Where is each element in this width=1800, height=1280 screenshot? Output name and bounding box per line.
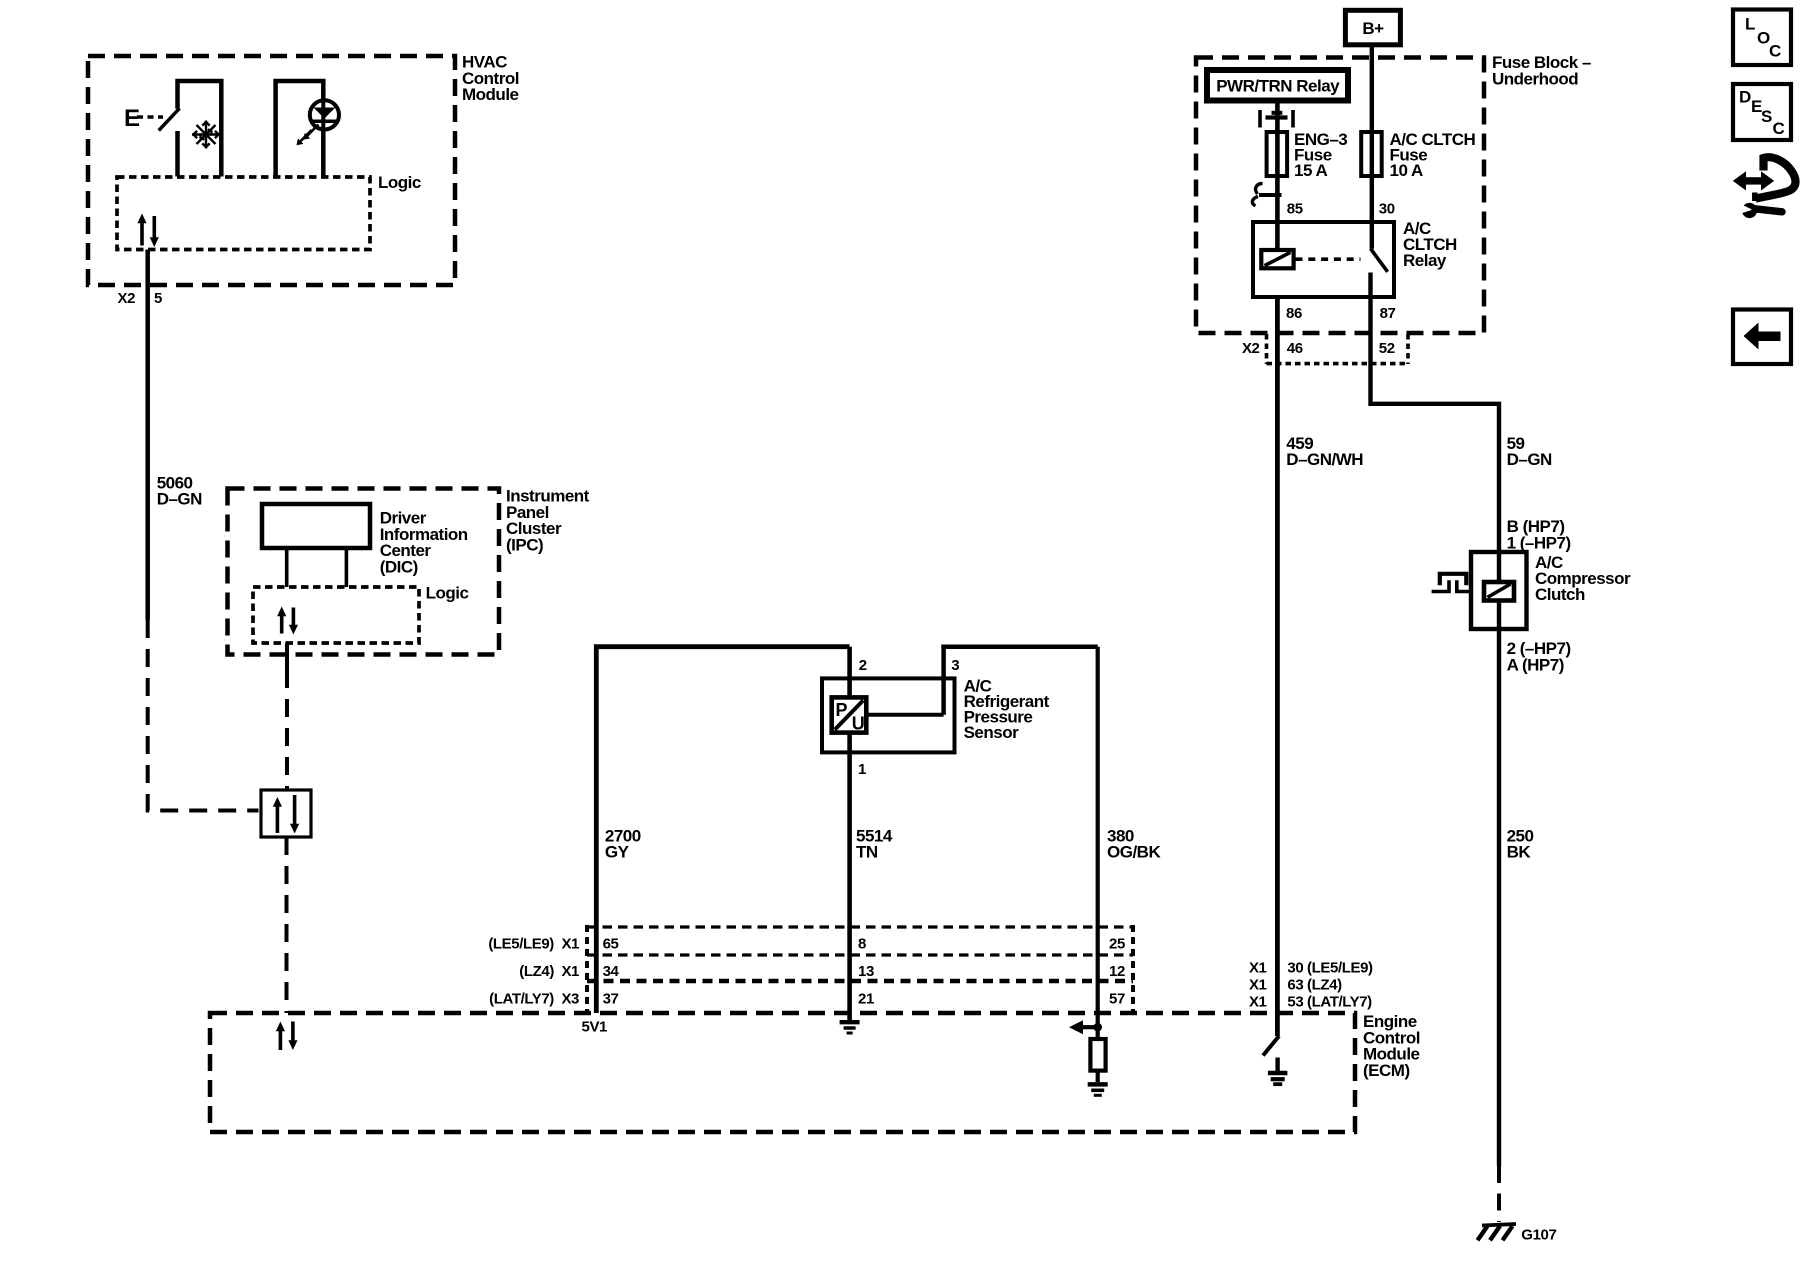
resistor R1 [1090, 1039, 1105, 1071]
fuse A/C CLTCH [1361, 132, 1382, 176]
LED D1 circle [310, 100, 339, 129]
svg-text:57: 57 [1109, 991, 1125, 1008]
wire 87 contact run [1371, 273, 1500, 553]
wire 59 D-GN label [1507, 434, 1552, 469]
wire 250 BK dashed end [1497, 1166, 1501, 1222]
splice bar [1259, 193, 1282, 197]
svg-text:X2: X2 [1242, 340, 1260, 357]
wire pin 2 upper [847, 647, 852, 698]
HVAC Logic box [117, 177, 370, 250]
B+ feed box [1345, 10, 1400, 45]
link box down arrow [293, 795, 297, 825]
LOC nav box [1733, 10, 1791, 66]
LOC letters [1745, 15, 1781, 61]
svg-text:12: 12 [1109, 963, 1125, 980]
pin B/1 labels [1507, 517, 1571, 552]
ECM driver switch [1263, 1036, 1279, 1056]
wire 459 D-GN/WH label [1286, 434, 1363, 469]
svg-text:Clutch: Clutch [1535, 585, 1585, 604]
svg-text:37: 37 [603, 991, 619, 1008]
Fuse Block label [1492, 53, 1591, 88]
svg-text:Relay: Relay [1403, 251, 1447, 270]
svg-text:(LAT/LY7) X3: (LAT/LY7) X3 [489, 991, 579, 1008]
LED light arrow 1 [306, 125, 318, 138]
back arrow [1744, 323, 1781, 350]
svg-text:C: C [1769, 42, 1781, 61]
mechanical linkage leads [1432, 580, 1471, 591]
svg-text:S: S [1761, 107, 1772, 126]
svg-text:X1: X1 [1249, 960, 1267, 977]
svg-text:30 (LE5/LE9): 30 (LE5/LE9) [1287, 960, 1373, 977]
wire relay to coil [1275, 101, 1280, 251]
wire IPC output solid [285, 643, 289, 670]
connector right edge [1131, 925, 1135, 1013]
svg-text:PWR/TRN Relay: PWR/TRN Relay [1216, 77, 1340, 96]
connector row line 2 [587, 953, 1133, 956]
svg-text:BK: BK [1507, 843, 1532, 862]
wire 250 BK label [1507, 826, 1534, 861]
A/C refrigerant pressure sensor box [822, 678, 955, 752]
ECM up arrow [279, 1030, 283, 1050]
svg-text:D–GN: D–GN [157, 490, 202, 509]
A/C CLTCH fuse label [1390, 130, 1476, 180]
svg-text:G107: G107 [1521, 1227, 1556, 1244]
svg-text:87: 87 [1380, 305, 1396, 322]
svg-text:TN: TN [856, 843, 878, 862]
IPC Logic box [253, 587, 419, 643]
relay coil K1 [1261, 250, 1293, 268]
svg-text:GY: GY [605, 843, 630, 862]
svg-text:Underhood: Underhood [1492, 69, 1578, 88]
svg-text:34: 34 [603, 963, 620, 980]
svg-text:15 A: 15 A [1294, 161, 1328, 180]
A/C CLTCH relay label [1403, 219, 1457, 270]
wire E dashed lead [137, 115, 163, 119]
svg-text:1: 1 [858, 761, 866, 778]
svg-text:65: 65 [603, 936, 619, 953]
wire through clutch [1497, 552, 1501, 1166]
junction node [1093, 1023, 1102, 1032]
wire 5514 TN label [856, 826, 893, 861]
wire 459 trunk [1275, 297, 1280, 1036]
wire 380 top horizontal [941, 644, 1097, 649]
Fuse Block Underhood box [1196, 58, 1484, 334]
ENG-3 fuse label [1294, 130, 1347, 180]
IPC logic up arrow [280, 615, 284, 634]
wire sensor internal [866, 713, 943, 717]
svg-text:5V1: 5V1 [582, 1019, 608, 1036]
logic up arrow [140, 222, 144, 246]
back arrow box [1733, 310, 1791, 365]
svg-text:30: 30 [1379, 200, 1395, 217]
svg-text:(DIC): (DIC) [380, 557, 418, 576]
svg-text:Logic: Logic [426, 584, 469, 603]
svg-text:D: D [1739, 87, 1751, 106]
link box up arrow [276, 806, 280, 833]
X2 connector bottom [1267, 362, 1409, 366]
svg-text:(ECM): (ECM) [1363, 1061, 1410, 1080]
wire lower leg of switch [175, 131, 180, 177]
svg-text:13: 13 [858, 963, 874, 980]
svg-text:D–GN/WH: D–GN/WH [1286, 450, 1363, 469]
svg-text:1 (–HP7): 1 (–HP7) [1507, 533, 1571, 552]
fuse ENG-3 [1267, 132, 1288, 176]
X1 pin labels left [1249, 960, 1267, 1011]
wire 5060 dashed segment [148, 620, 259, 811]
P/U diagonal [835, 700, 863, 729]
wire IPC output dashed [285, 670, 289, 790]
connector row line 3 [587, 979, 1133, 983]
ECM label [1363, 1012, 1420, 1080]
svg-text:Module: Module [462, 85, 519, 104]
svg-text:L: L [1745, 15, 1755, 34]
svg-text:OG/BK: OG/BK [1107, 843, 1161, 862]
wire 380 OG/BK vertical [1096, 647, 1100, 1025]
wire pin 3 [941, 645, 946, 715]
svg-text:(LE5/LE9) X1: (LE5/LE9) X1 [488, 936, 579, 953]
DIC display box [262, 504, 370, 548]
wire pin 1 lower [847, 733, 852, 1023]
svg-text:P: P [836, 700, 848, 720]
svg-text:X1: X1 [1249, 994, 1267, 1011]
ECM internal ground [1268, 1058, 1288, 1085]
wire DIC leg left [285, 548, 289, 587]
svg-text:Logic: Logic [378, 173, 421, 192]
svg-text:(IPC): (IPC) [506, 535, 543, 554]
LED D1 cathode bar [312, 120, 336, 124]
svg-text:X1: X1 [1249, 977, 1267, 994]
A/C Compressor Clutch label [1535, 553, 1631, 604]
snowflake A/C icon [192, 121, 220, 149]
svg-text:C: C [1773, 119, 1785, 138]
DESC letters [1739, 87, 1785, 138]
swap arrow icon [1733, 157, 1796, 201]
relay output bracket [1260, 110, 1293, 128]
connector row line 1 [587, 925, 1133, 928]
svg-text:46: 46 [1287, 340, 1303, 357]
svg-text:8: 8 [858, 936, 866, 953]
pin 2/A labels [1507, 639, 1571, 674]
wire indicator loop [276, 81, 324, 177]
coil diagonal [1265, 252, 1291, 265]
wire below LED [321, 129, 326, 177]
svg-text:2: 2 [859, 657, 867, 674]
ground below resistor [1088, 1084, 1108, 1095]
IPC label [506, 487, 590, 555]
clutch solenoid [1484, 582, 1514, 601]
DIC label [380, 509, 468, 577]
svg-text:(LZ4) X1: (LZ4) X1 [519, 963, 579, 980]
ground at pin 21 [840, 1022, 860, 1033]
svg-text:Sensor: Sensor [964, 723, 1020, 742]
A/C CLTCH relay box [1253, 222, 1394, 297]
output arrow at pin 57 [1069, 1020, 1083, 1034]
svg-text:85: 85 [1287, 200, 1303, 217]
wire dashed to ECM [285, 837, 289, 1013]
svg-text:U: U [852, 714, 865, 734]
svg-text:D–GN: D–GN [1507, 450, 1552, 469]
Instrument Panel Cluster box [228, 489, 500, 655]
svg-text:A (HP7): A (HP7) [1507, 655, 1564, 674]
svg-text:86: 86 [1286, 305, 1302, 322]
svg-text:53 (LAT/LY7): 53 (LAT/LY7) [1287, 994, 1372, 1011]
X2 connector left tick [1265, 334, 1269, 364]
DESC nav box [1733, 84, 1791, 140]
HVAC Control Module box [88, 56, 455, 285]
svg-text:21: 21 [858, 991, 874, 1008]
wire through LED [321, 101, 325, 130]
wire 5060 D-GN label [157, 473, 202, 508]
solenoid diagonal [1488, 584, 1511, 597]
logic down arrow [153, 216, 157, 239]
svg-text:X2: X2 [118, 290, 136, 307]
wire 380 OG/BK label [1107, 826, 1161, 861]
svg-text:25: 25 [1109, 936, 1125, 953]
wire DIC leg right [345, 548, 349, 587]
PWR/TRN Relay box [1207, 70, 1348, 101]
ECM down arrow [291, 1022, 295, 1042]
relay switch arm [1371, 249, 1388, 272]
svg-text:52: 52 [1379, 340, 1395, 357]
switch S1 arm [159, 108, 180, 130]
wire to resistor [1096, 1027, 1100, 1039]
wire A/C request loop [178, 81, 222, 177]
X1 pin labels right [1287, 960, 1373, 1011]
wire resistor to ground [1096, 1071, 1100, 1082]
X2 connector right tick [1406, 334, 1410, 364]
splice curl symbol [1252, 184, 1262, 206]
IPC logic down arrow [292, 608, 296, 627]
wire HVAC output pin 5 [145, 250, 150, 621]
HVAC Control Module label [462, 53, 519, 105]
wire 2700 GY label [605, 826, 641, 861]
wire 2700 GY left branch [596, 647, 849, 1013]
LED light arrow 2 [299, 130, 311, 143]
LED D1 triangle [314, 108, 336, 119]
mechanical linkage hat [1440, 574, 1467, 586]
svg-text:63 (LZ4): 63 (LZ4) [1287, 977, 1342, 994]
A/C compressor clutch box [1471, 552, 1527, 629]
svg-text:5: 5 [154, 290, 162, 307]
wrench icon [1739, 203, 1783, 218]
ground G107 [1478, 1224, 1517, 1240]
sensor label [964, 677, 1050, 743]
wire B+ to fuse [1370, 45, 1374, 249]
relay actuate dashed link [1296, 257, 1361, 261]
svg-text:3: 3 [951, 657, 959, 674]
svg-text:B+: B+ [1362, 19, 1384, 38]
serial data link box [261, 790, 311, 837]
svg-text:10 A: 10 A [1390, 161, 1424, 180]
pressure transducer P/U box [832, 697, 867, 732]
ECM box [210, 1013, 1355, 1132]
connector left edge [585, 925, 589, 1013]
